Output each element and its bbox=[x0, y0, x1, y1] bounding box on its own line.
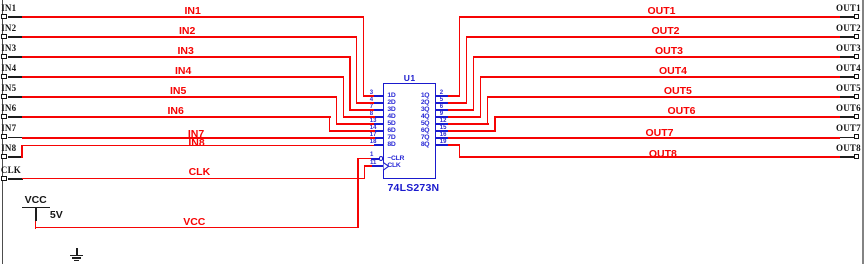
VCC value label 5V bbox=[50, 210, 63, 221]
U1 pin name 5Q bbox=[414, 121, 429, 128]
wire OUT4 vertical bbox=[480, 76, 481, 118]
U1 pin number 7 bbox=[370, 104, 373, 110]
net label IN7 bbox=[188, 129, 204, 140]
net label IN1 bbox=[185, 6, 201, 17]
wire OUT7 horizontal from pin 7Q bbox=[448, 137, 841, 138]
wire IN7 horizontal to pin 7D bbox=[22, 137, 375, 138]
connector IN4 bbox=[1, 64, 16, 73]
net label IN5 bbox=[170, 86, 186, 97]
U1 pin stub 5Q (pin 12) bbox=[436, 123, 449, 125]
U1 pin number 12 bbox=[440, 118, 447, 124]
net label OUT6 bbox=[668, 106, 696, 117]
wire IN6 horizontal from connector bbox=[22, 116, 331, 117]
connector IN1 bbox=[1, 4, 16, 13]
wire IN6 vertical bbox=[329, 116, 330, 132]
wire OUT3 from pin 3Q bbox=[448, 109, 475, 110]
net label OUT4 bbox=[659, 66, 687, 77]
IC U1 part value label 74LS273N bbox=[388, 183, 440, 194]
wire OUT1 from pin 1Q bbox=[448, 95, 461, 96]
connector OUT6 bbox=[836, 104, 861, 113]
net label CLK bbox=[189, 167, 211, 178]
VCC power symbol label bbox=[25, 195, 47, 206]
net label VCC bbox=[183, 217, 205, 228]
connector OUT1 bbox=[836, 4, 861, 13]
U1 pin name 3D bbox=[387, 107, 395, 114]
net label OUT2 bbox=[652, 26, 680, 37]
connector CLK bbox=[1, 166, 21, 175]
U1 pin name 8D bbox=[387, 142, 395, 149]
wire OUT3 vertical bbox=[473, 56, 474, 111]
wire OUT1 vertical bbox=[459, 16, 460, 97]
wire OUT4 from pin 4Q bbox=[448, 116, 482, 117]
ground symbol bar 2 bbox=[72, 257, 80, 258]
U1 pin number 6 bbox=[440, 104, 443, 110]
wire IN2 horizontal from connector bbox=[22, 36, 357, 37]
net label OUT8 bbox=[649, 149, 677, 160]
IC U1 74LS273N body bbox=[383, 83, 437, 178]
U1 pin number 19 bbox=[440, 139, 447, 145]
U1 pin name 4Q bbox=[414, 114, 429, 121]
wire OUT4 horizontal to connector bbox=[480, 76, 841, 77]
wire IN5 vertical bbox=[336, 96, 337, 125]
U1 pin name 6D bbox=[387, 128, 395, 135]
IC U1 refdes label bbox=[404, 74, 416, 83]
wire CLK into clock pin bbox=[364, 165, 372, 166]
net label IN3 bbox=[178, 46, 194, 57]
connector OUT8 bbox=[836, 144, 861, 153]
U1 pin name 1Q bbox=[414, 93, 429, 100]
U1 pin name 4D bbox=[387, 114, 395, 121]
U1 pin number 16 bbox=[440, 132, 447, 138]
U1 pin stub 8D (pin 18) bbox=[374, 144, 383, 146]
connector OUT5 bbox=[836, 84, 861, 93]
ground symbol bar 1 bbox=[70, 255, 83, 257]
wire IN4 into pin 4D bbox=[343, 116, 375, 117]
wire OUT6 horizontal to connector bbox=[494, 116, 840, 117]
net label IN8 bbox=[188, 138, 204, 149]
U1 pin name 2Q bbox=[414, 100, 429, 107]
U1 pin name 5D bbox=[387, 121, 395, 128]
connector IN6 bbox=[1, 104, 16, 113]
wire IN4 vertical bbox=[343, 76, 344, 118]
U1 pin name ~CLR bbox=[387, 156, 404, 163]
U1 pin name 7D bbox=[387, 135, 395, 142]
wire IN8 horizontal to pin 8D bbox=[21, 145, 374, 146]
U1 pin number 4 bbox=[370, 97, 373, 103]
U1 pin stub 6D (pin 14) bbox=[374, 130, 383, 132]
U1 pin stub 7D (pin 17) bbox=[374, 137, 383, 139]
U1 pin stub 2Q (pin 5) bbox=[436, 102, 449, 104]
U1 pin name 1D bbox=[387, 93, 395, 100]
wire IN1 horizontal from connector bbox=[22, 16, 364, 17]
U1 pin number 18 bbox=[370, 139, 377, 145]
wire OUT2 horizontal to connector bbox=[466, 36, 841, 37]
wire OUT2 vertical bbox=[466, 36, 467, 104]
net label OUT5 bbox=[664, 86, 692, 97]
U1 pin number 14 bbox=[370, 125, 377, 131]
wire VCC horizontal bbox=[35, 227, 359, 228]
U1 pin number 15 bbox=[440, 125, 447, 131]
net label IN2 bbox=[179, 26, 195, 37]
U1 pin number 1 bbox=[370, 152, 373, 158]
wire CLK horizontal from connector bbox=[22, 178, 365, 179]
wire IN3 into pin 3D bbox=[349, 109, 374, 110]
U1 pin name 3Q bbox=[414, 107, 429, 114]
sheet border left bbox=[2, 0, 4, 264]
U1 pin number 17 bbox=[370, 132, 377, 138]
U1 pin stub 7Q (pin 16) bbox=[436, 137, 449, 139]
U1 pin stub 1D (pin 3) bbox=[374, 95, 383, 97]
wire VCC vertical from symbol bbox=[35, 221, 36, 230]
wire OUT5 vertical bbox=[487, 96, 488, 125]
wire IN5 horizontal from connector bbox=[22, 96, 337, 97]
VCC power symbol bar bbox=[22, 207, 49, 209]
ground symbol stem bbox=[76, 248, 78, 256]
U1 pin stub 4D (pin 8) bbox=[374, 116, 383, 118]
wire IN5 into pin 5D bbox=[336, 123, 375, 124]
wire IN1 into pin 1D bbox=[363, 95, 375, 96]
connector OUT2 bbox=[836, 24, 861, 33]
U1 pin stub 3Q (pin 6) bbox=[436, 109, 449, 111]
U1 ~CLR inversion bubble bbox=[379, 156, 384, 161]
net label OUT3 bbox=[655, 46, 683, 57]
wire OUT8 horizontal to connector bbox=[459, 156, 841, 157]
U1 pin number 13 bbox=[370, 118, 377, 124]
connector OUT7 bbox=[836, 124, 861, 133]
wire OUT5 horizontal to connector bbox=[487, 96, 840, 97]
U1 pin stub 2D (pin 4) bbox=[374, 102, 383, 104]
wire VCC vertical riser to ~CLR bbox=[357, 158, 358, 228]
U1 pin stub 1Q (pin 2) bbox=[436, 95, 449, 97]
wire IN2 vertical bbox=[356, 36, 357, 104]
wire VCC into ~CLR pin bbox=[357, 158, 371, 159]
connector IN3 bbox=[1, 44, 16, 53]
connector OUT4 bbox=[836, 64, 861, 73]
U1 pin number 3 bbox=[370, 90, 373, 96]
U1 pin name 2D bbox=[387, 100, 395, 107]
wire IN8 vertical at connector bbox=[21, 145, 22, 158]
wire IN3 horizontal from connector bbox=[22, 56, 351, 57]
connector IN5 bbox=[1, 84, 16, 93]
wire IN6 into pin 6D bbox=[329, 130, 375, 131]
wire OUT2 from pin 2Q bbox=[448, 102, 468, 103]
U1 pin stub 5D (pin 13) bbox=[374, 123, 383, 125]
U1 pin stub 8Q (pin 19) bbox=[436, 144, 449, 146]
net label OUT1 bbox=[648, 6, 676, 17]
wire OUT3 horizontal to connector bbox=[473, 56, 841, 57]
U1 clock triangle bbox=[383, 162, 391, 171]
ground symbol bar 3 bbox=[74, 260, 78, 261]
wire OUT8 from pin 8Q bbox=[448, 144, 461, 145]
U1 pin number 5 bbox=[440, 97, 443, 103]
net label OUT7 bbox=[646, 128, 674, 139]
wire OUT8 vertical bbox=[459, 144, 460, 157]
connector IN2 bbox=[1, 24, 16, 33]
U1 pin stub 6Q (pin 15) bbox=[436, 130, 449, 132]
wire OUT1 horizontal to connector bbox=[459, 16, 841, 17]
connector IN7 bbox=[1, 124, 16, 133]
U1 pin name 8Q bbox=[414, 142, 429, 149]
U1 pin stub 3D (pin 7) bbox=[374, 109, 383, 111]
wire IN4 horizontal from connector bbox=[22, 76, 344, 77]
wire OUT6 vertical bbox=[494, 116, 495, 132]
U1 pin number 11 bbox=[370, 160, 376, 166]
U1 pin stub 4Q (pin 9) bbox=[436, 116, 449, 118]
VCC power symbol stem bbox=[35, 208, 37, 221]
wire IN3 vertical bbox=[349, 56, 350, 111]
U1 pin number 2 bbox=[440, 90, 443, 96]
U1 pin stub CLK (pin 11) bbox=[371, 165, 383, 167]
U1 pin name CLK bbox=[387, 163, 400, 170]
U1 pin name 7Q bbox=[414, 135, 429, 142]
wire OUT5 from pin 5Q bbox=[448, 123, 489, 124]
connector OUT3 bbox=[836, 44, 861, 53]
net label IN6 bbox=[168, 106, 184, 117]
wire CLK vertical bbox=[364, 165, 365, 179]
net label IN4 bbox=[175, 66, 191, 77]
wire IN2 into pin 2D bbox=[356, 102, 375, 103]
wire OUT6 from pin 6Q bbox=[448, 130, 496, 131]
U1 pin name 6Q bbox=[414, 128, 429, 135]
wire IN1 vertical bbox=[363, 16, 364, 97]
U1 pin stub ~CLR (pin 1) bbox=[371, 158, 379, 160]
connector IN8 bbox=[1, 144, 16, 153]
U1 pin number 9 bbox=[440, 111, 443, 117]
sheet border right bbox=[862, 0, 865, 264]
U1 pin number 8 bbox=[370, 111, 373, 117]
